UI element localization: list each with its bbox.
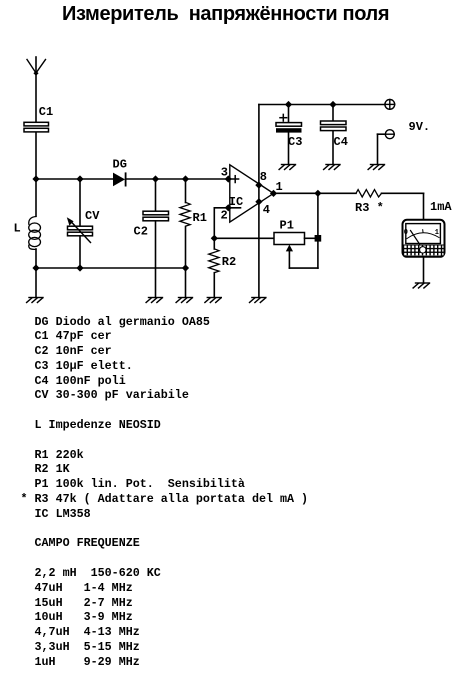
ground (C3)	[279, 165, 295, 170]
node output / P1 branch	[314, 190, 321, 197]
node R1 bottom junction	[182, 264, 189, 271]
pin 2 stub	[214, 207, 240, 209]
capacitor C3 (electrolytic)	[276, 105, 302, 164]
ground (R2)	[205, 298, 221, 303]
capacitor C2	[134, 179, 169, 297]
node C3 top junction	[285, 101, 292, 108]
op-amp + input mark	[232, 176, 239, 183]
wire lower rail	[36, 267, 186, 269]
svg-text:0: 0	[404, 229, 408, 237]
svg-text:IC: IC	[229, 195, 243, 209]
wire meter to ground	[423, 257, 425, 283]
wire R2 node to P1 left	[214, 237, 274, 239]
svg-text:8: 8	[260, 170, 267, 184]
pin 3 node	[225, 175, 232, 182]
svg-text:P1: P1	[280, 219, 294, 233]
node CV top junction	[76, 175, 83, 182]
wire C1 to top rail	[35, 133, 37, 180]
svg-text:CV: CV	[85, 209, 100, 223]
ground (R1)	[176, 298, 192, 303]
svg-text:1: 1	[435, 229, 439, 237]
node L bottom junction	[32, 264, 39, 271]
pin 1 output node	[270, 190, 277, 197]
svg-text:9V.: 9V.	[409, 120, 431, 134]
node antenna/rail junction	[32, 175, 39, 182]
wire diode cathode to op-amp pin 3	[126, 178, 229, 180]
wire inverting input down to R2 node	[213, 208, 215, 239]
wire R1 to ground	[185, 268, 187, 297]
svg-text:1mA: 1mA	[430, 200, 452, 214]
node R2 / P1 junction	[211, 235, 218, 242]
node C2 top junction	[152, 175, 159, 182]
svg-text:R1: R1	[193, 211, 207, 225]
svg-text:DG: DG	[113, 158, 127, 172]
pin 2 node	[225, 204, 232, 211]
node C4 top junction	[329, 101, 336, 108]
svg-text:1: 1	[276, 180, 283, 194]
svg-text:2: 2	[221, 208, 228, 222]
op-amp U1 triangle	[230, 165, 274, 222]
svg-text:L: L	[14, 222, 21, 236]
wire op-amp output	[274, 192, 357, 194]
wire R3 to meter	[382, 193, 424, 219]
wire lower rail to ground	[35, 268, 37, 297]
node R1 top junction	[182, 175, 189, 182]
ground (antenna circuit)	[27, 298, 43, 303]
ground (op-amp pin 4)	[250, 298, 266, 303]
wire battery + rail	[259, 104, 385, 106]
capacitor C4	[321, 105, 348, 164]
ground (battery)	[368, 165, 384, 170]
battery - terminal	[385, 130, 394, 139]
svg-text:C3: C3	[288, 135, 302, 149]
ground (C4)	[324, 165, 340, 170]
wire top rail (antenna node to diode anode)	[36, 178, 113, 180]
svg-text:R3 *: R3 *	[355, 201, 384, 215]
wire output node down to P1 right	[317, 193, 319, 238]
capacitor C1	[24, 105, 53, 132]
meter M1	[403, 220, 445, 257]
potentiometer P1	[274, 219, 321, 269]
resistor R2	[209, 238, 237, 297]
wire battery - to ground	[378, 134, 386, 163]
svg-text:R2: R2	[222, 255, 236, 269]
resistor R1	[180, 179, 207, 268]
diode DG	[113, 158, 127, 187]
svg-text:4: 4	[263, 203, 270, 217]
battery + terminal	[385, 100, 395, 110]
pin 8 node	[255, 182, 262, 189]
wire op-amp supply vertical (pin 8 to pin 4 to ground)	[258, 105, 260, 298]
antenna	[27, 57, 46, 123]
inductor L	[14, 179, 41, 268]
variable capacitor CV	[67, 179, 100, 268]
resistor R3	[355, 190, 384, 215]
ground (meter)	[413, 283, 429, 288]
svg-text:C4: C4	[334, 135, 348, 149]
pin 4 node	[255, 198, 262, 205]
svg-text:C2: C2	[134, 225, 148, 239]
ground (C2)	[146, 298, 162, 303]
svg-text:3: 3	[221, 165, 228, 179]
svg-text:C1: C1	[39, 105, 53, 119]
node CV bottom junction	[76, 264, 83, 271]
